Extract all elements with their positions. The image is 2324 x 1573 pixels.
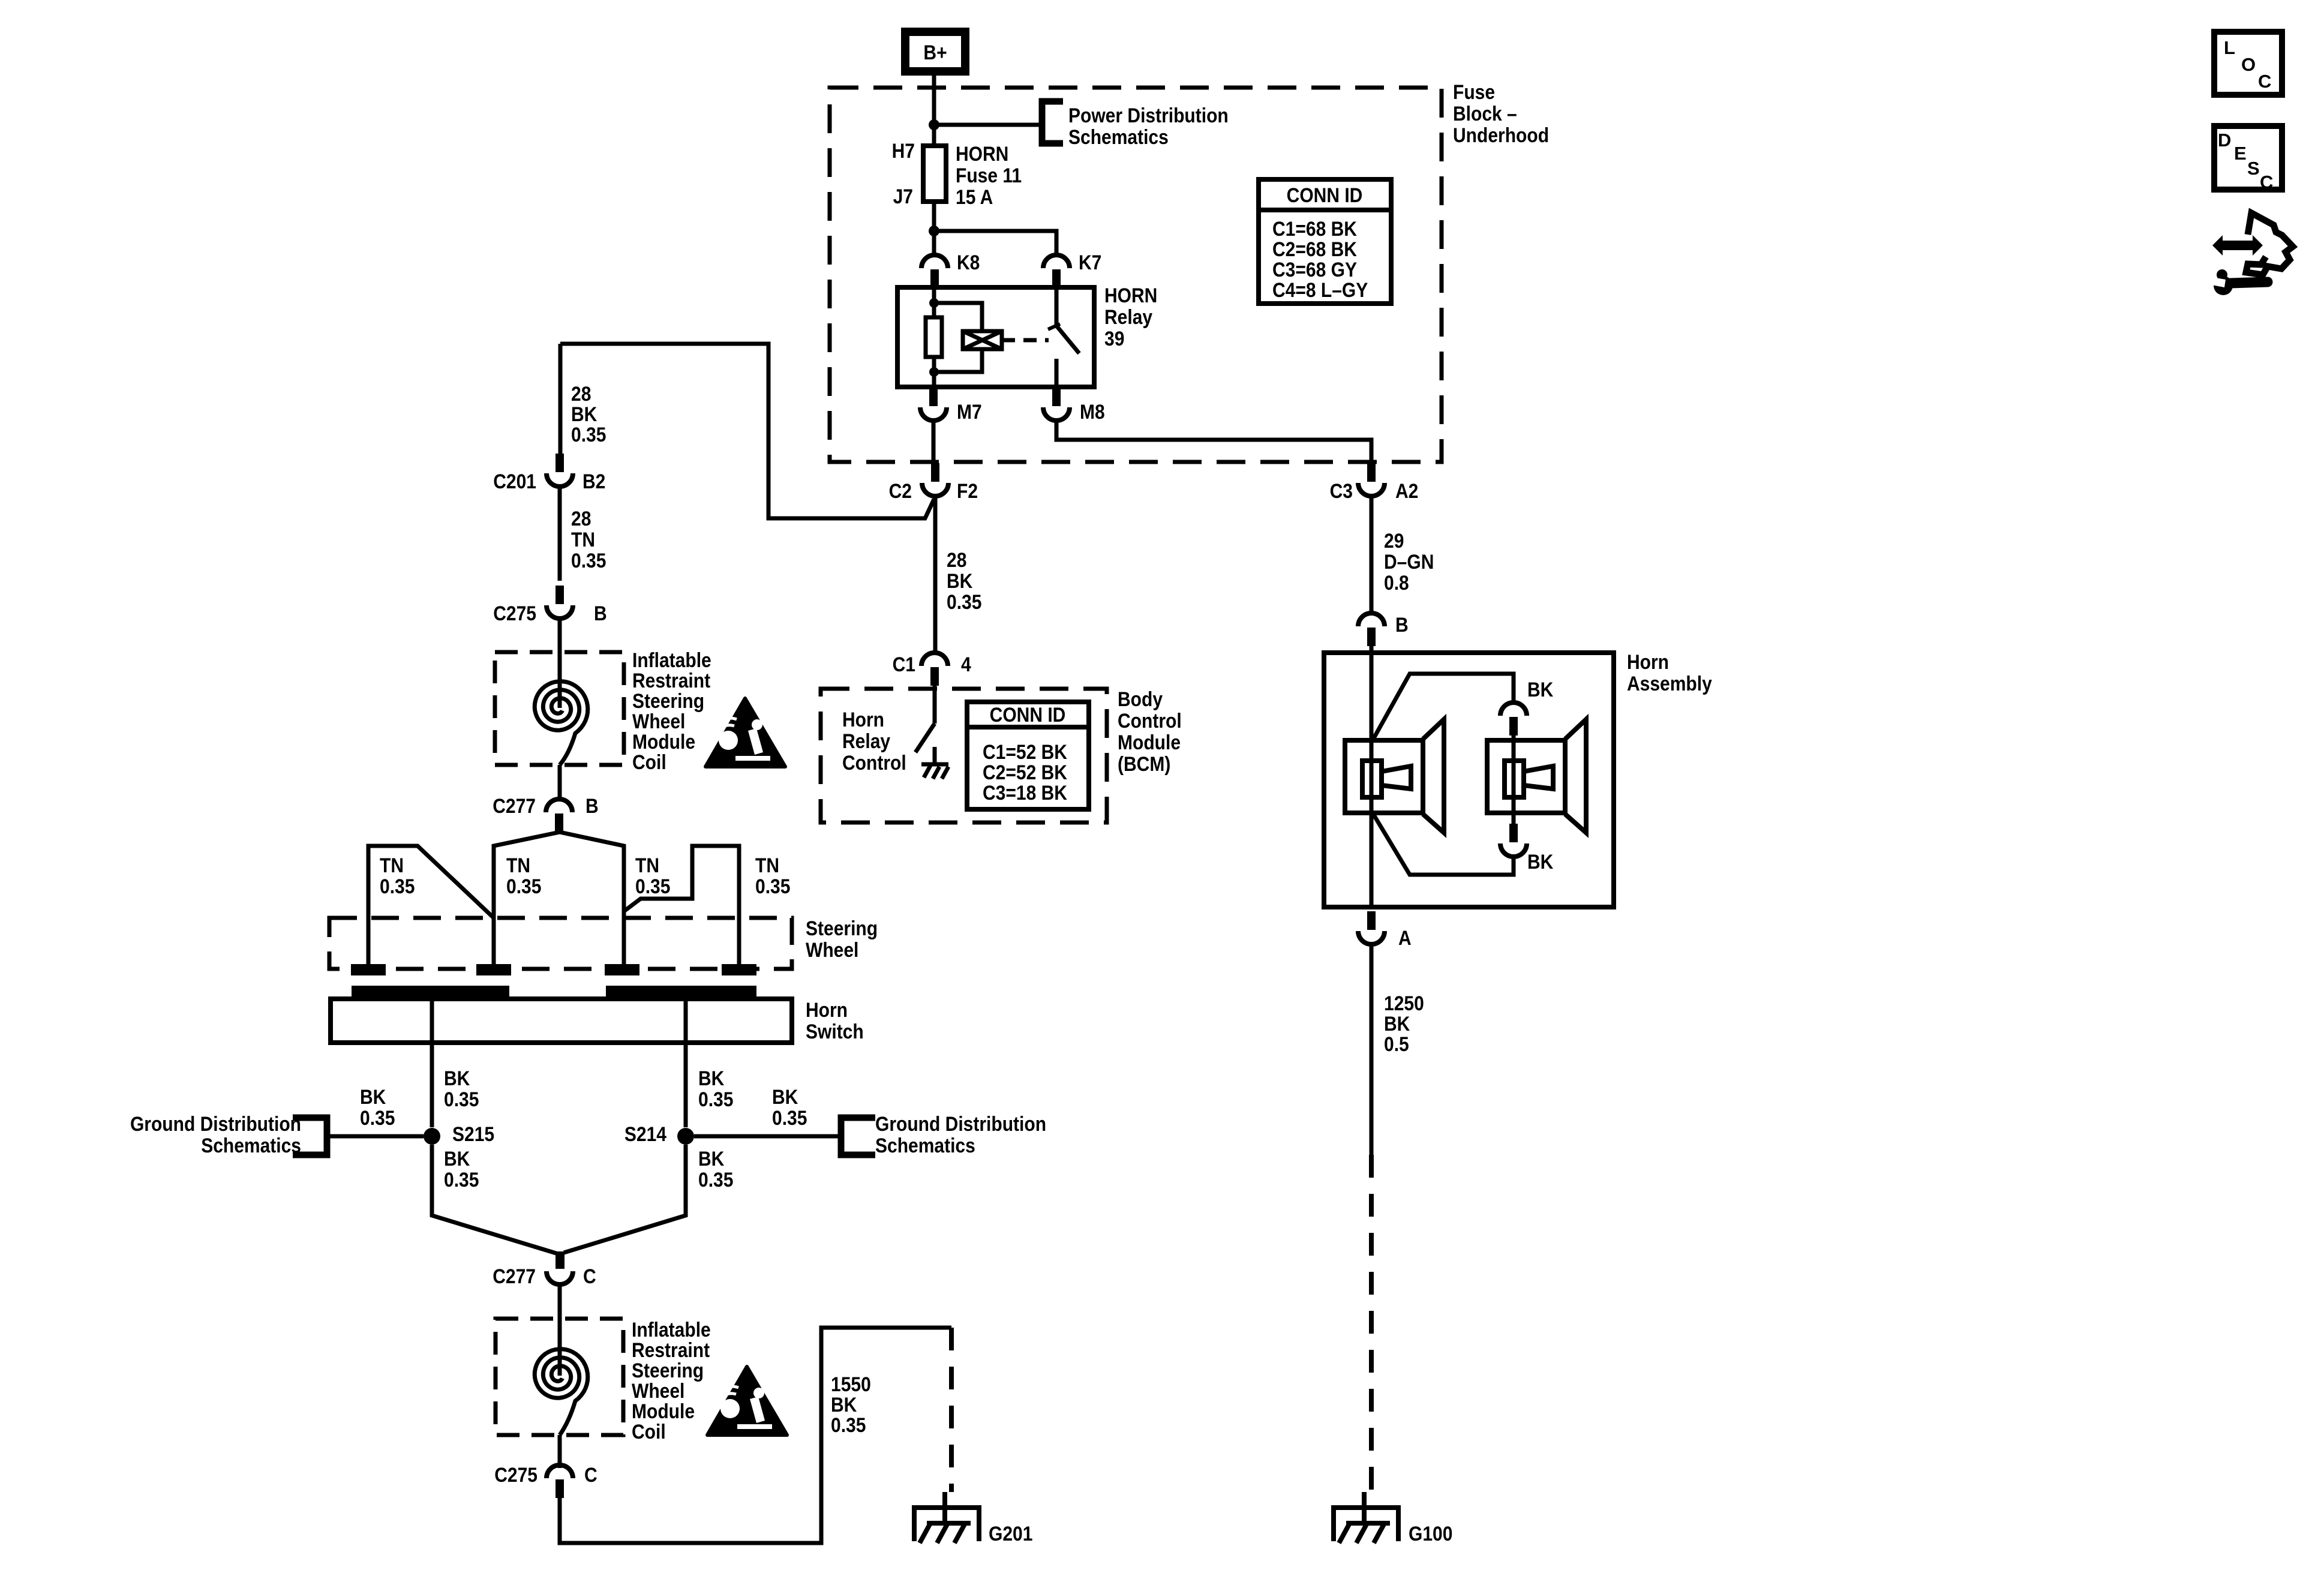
svg-text:BK: BK bbox=[444, 1147, 470, 1170]
label wire TN 0.35 #4 bbox=[755, 854, 790, 897]
ground G201 symbol bbox=[914, 1492, 979, 1543]
wire junction to fuse pin H7 bbox=[932, 125, 936, 146]
svg-text:0.35: 0.35 bbox=[380, 875, 415, 897]
off-page bracket Power Distribution bbox=[1042, 101, 1063, 143]
connector C1 pin 4 bbox=[921, 653, 948, 686]
label wire BK 0.35 above S214 bbox=[698, 1067, 733, 1110]
label wire BK 0.35 left of S215 bbox=[360, 1085, 395, 1129]
svg-text:0.35: 0.35 bbox=[831, 1413, 866, 1436]
connector pin M7 bbox=[920, 388, 947, 421]
svg-text:0.35: 0.35 bbox=[444, 1168, 479, 1191]
svg-text:Coil: Coil bbox=[632, 751, 666, 773]
connector C277 pin C stub bbox=[556, 1251, 565, 1269]
label S214 bbox=[624, 1122, 666, 1145]
svg-text:B2: B2 bbox=[582, 470, 605, 493]
wire dashed to G201 bbox=[949, 1328, 954, 1492]
pin B label C275 bbox=[594, 602, 607, 625]
label wire TN 0.35 #2 bbox=[506, 854, 541, 897]
wire coil 2 to C275-C bbox=[558, 1435, 562, 1468]
pin B label C277 bbox=[585, 794, 599, 817]
connector pin K8 bbox=[921, 255, 948, 288]
connector C1 label bbox=[893, 653, 915, 676]
wire C277-C into coil 2 bbox=[558, 1284, 562, 1376]
svg-text:K8: K8 bbox=[957, 251, 980, 274]
svg-text:C2: C2 bbox=[889, 479, 912, 502]
svg-text:Body: Body bbox=[1118, 688, 1163, 710]
svg-text:M7: M7 bbox=[957, 400, 982, 423]
svg-text:BK: BK bbox=[360, 1085, 386, 1108]
svg-text:A2: A2 bbox=[1395, 479, 1418, 502]
svg-text:28: 28 bbox=[947, 548, 966, 571]
wire junction to relay pin K7 bbox=[934, 231, 1056, 255]
svg-text:Fuse 11: Fuse 11 bbox=[956, 164, 1022, 187]
wire right horn to BK connector bottom bbox=[1512, 813, 1516, 830]
label Steering Wheel bbox=[806, 917, 878, 961]
svg-text:Steering: Steering bbox=[632, 1359, 704, 1382]
svg-text:Restraint: Restraint bbox=[632, 669, 710, 692]
steering wheel dashed box bbox=[329, 918, 792, 969]
wire junction to relay pin K8 bbox=[932, 231, 936, 255]
svg-text:1550: 1550 bbox=[831, 1373, 871, 1395]
pin A2 label bbox=[1395, 479, 1418, 502]
svg-text:S215: S215 bbox=[452, 1122, 494, 1145]
connector C277 pin C arc bbox=[547, 1271, 573, 1284]
svg-text:B: B bbox=[1395, 613, 1409, 636]
table rows conn id fuse block bbox=[1272, 217, 1368, 301]
table header CONN ID bbox=[1287, 184, 1363, 206]
svg-text:0.5: 0.5 bbox=[1384, 1032, 1409, 1055]
wire coil 1 to C277-B bbox=[558, 765, 562, 799]
svg-text:Underhood: Underhood bbox=[1453, 124, 1549, 146]
wire left horn to pin A bbox=[1370, 813, 1374, 907]
wire relay coil to bottom node bbox=[934, 349, 982, 372]
svg-text:Module: Module bbox=[632, 730, 695, 753]
wire S214 to C277-C bbox=[564, 1145, 686, 1253]
svg-text:C277: C277 bbox=[493, 794, 536, 817]
label wire TN 0.35 #1 bbox=[380, 854, 415, 897]
off-page bracket Ground Distribution right bbox=[841, 1118, 875, 1155]
table CONN ID (fuse block underhood) bbox=[1259, 179, 1391, 304]
svg-text:BK: BK bbox=[1527, 678, 1554, 701]
svg-text:Wheel: Wheel bbox=[632, 1379, 684, 1402]
label B+ bbox=[923, 41, 947, 64]
wire BK connector to right horn bbox=[1512, 736, 1516, 740]
svg-text:39: 39 bbox=[1104, 327, 1124, 350]
warning triangle 2 (airbag warning pictograph) bbox=[707, 1367, 787, 1435]
svg-text:0.35: 0.35 bbox=[444, 1088, 479, 1110]
wire to relay pin M7 bbox=[932, 372, 936, 387]
label inflatable restraint steering wheel module coil 1 bbox=[632, 649, 711, 773]
label wire BK 0.35 below S215 bbox=[444, 1147, 479, 1191]
label wire 28 BK 0.35 middle bbox=[947, 548, 981, 613]
label wire 29 D-GN 0.8 bbox=[1384, 529, 1434, 594]
svg-text:H7: H7 bbox=[892, 139, 915, 162]
label wire 28 BK 0.35 left bbox=[571, 382, 606, 446]
wire BK return to main bbox=[1373, 813, 1514, 875]
svg-text:Relay: Relay bbox=[1104, 305, 1152, 328]
svg-text:BK: BK bbox=[698, 1147, 725, 1170]
svg-text:Fuse: Fuse bbox=[1453, 80, 1495, 103]
wire horn switch output right bbox=[684, 996, 688, 1127]
svg-text:Power Distribution: Power Distribution bbox=[1068, 104, 1229, 127]
svg-text:Coil: Coil bbox=[632, 1420, 666, 1443]
wire 1250 BK 0.5 dashed to G100 bbox=[1369, 1155, 1374, 1492]
splice S214 bbox=[677, 1128, 694, 1145]
svg-text:Inflatable: Inflatable bbox=[632, 649, 711, 671]
relay HORN Relay 39 box bbox=[897, 287, 1094, 387]
svg-text:Ground Distribution: Ground Distribution bbox=[875, 1112, 1046, 1135]
svg-text:TN: TN bbox=[755, 854, 779, 876]
svg-text:C1=52 BK: C1=52 BK bbox=[983, 740, 1068, 763]
svg-text:Horn: Horn bbox=[842, 708, 884, 731]
label Ground Distribution Schematics right bbox=[875, 1112, 1046, 1157]
icon component locator (arrow head wrench) bbox=[2209, 213, 2293, 295]
svg-text:C: C bbox=[2258, 71, 2271, 92]
svg-text:Module: Module bbox=[1118, 731, 1181, 754]
connector C3 label bbox=[1330, 479, 1353, 502]
svg-text:0.35: 0.35 bbox=[571, 549, 606, 572]
svg-text:Wheel: Wheel bbox=[632, 710, 685, 733]
svg-text:Wheel: Wheel bbox=[806, 938, 858, 961]
icon LOC box bbox=[2214, 32, 2282, 95]
svg-text:0.35: 0.35 bbox=[360, 1106, 395, 1129]
svg-text:Steering: Steering bbox=[632, 689, 704, 712]
svg-text:J7: J7 bbox=[893, 185, 913, 208]
svg-text:G201: G201 bbox=[989, 1522, 1032, 1545]
pin B label bbox=[1395, 613, 1409, 636]
warning triangle 1 (airbag warning pictograph) bbox=[705, 698, 785, 767]
label Horn Relay Control bbox=[842, 708, 906, 774]
connector BK (horn 2 return) bbox=[1500, 824, 1527, 857]
node relay internal bottom bbox=[929, 367, 939, 377]
svg-text:15 A: 15 A bbox=[956, 185, 993, 208]
svg-text:TN: TN bbox=[380, 854, 404, 876]
svg-text:O: O bbox=[2241, 54, 2256, 75]
wire TN 4 crossover bbox=[624, 846, 739, 964]
svg-text:C2=52 BK: C2=52 BK bbox=[983, 761, 1068, 784]
label Fuse Block - Underhood bbox=[1453, 80, 1549, 146]
connector C275 pin C bbox=[547, 1465, 573, 1498]
wire branch to TN 3 bbox=[560, 832, 624, 964]
ground G201 label bbox=[989, 1522, 1032, 1545]
label BK top bbox=[1527, 678, 1554, 701]
svg-text:G100: G100 bbox=[1409, 1522, 1452, 1545]
horn 2 (right) symbol bbox=[1487, 719, 1586, 833]
svg-text:0.35: 0.35 bbox=[698, 1088, 733, 1110]
label wire 1550 BK 0.35 bbox=[831, 1373, 871, 1436]
svg-text:TN: TN bbox=[571, 528, 595, 551]
wire to power distribution bracket bbox=[934, 123, 1040, 127]
connector C201 pin B2 bbox=[547, 454, 573, 487]
svg-text:Horn: Horn bbox=[1627, 650, 1669, 673]
svg-text:Schematics: Schematics bbox=[1068, 125, 1169, 148]
connector C2 pin F2 bbox=[922, 463, 948, 496]
label Horn Switch bbox=[806, 998, 864, 1043]
svg-text:0.35: 0.35 bbox=[772, 1106, 807, 1129]
label S215 bbox=[452, 1122, 494, 1145]
coil 2 spiral (clockspring spiral) bbox=[535, 1349, 588, 1435]
power symbol B+ box bbox=[905, 32, 965, 71]
connector C277 pin B bbox=[546, 799, 572, 832]
wire M7 down to fuse block edge bbox=[932, 421, 936, 462]
resistor (relay internal) bbox=[926, 317, 942, 357]
svg-text:Assembly: Assembly bbox=[1627, 672, 1712, 695]
svg-text:BK: BK bbox=[1527, 850, 1554, 873]
relay coil (box-X) bbox=[963, 331, 1002, 349]
wire S214 to ground distribution bbox=[694, 1134, 841, 1139]
wire 28 TN 0.35 bbox=[558, 487, 562, 581]
svg-text:B+: B+ bbox=[923, 41, 947, 64]
fuse block underhood dashed box bbox=[830, 88, 1442, 462]
wire C1-4 into BCM switch bbox=[933, 686, 937, 724]
svg-text:Restraint: Restraint bbox=[632, 1338, 710, 1361]
label HORN Relay 39 bbox=[1104, 284, 1157, 350]
svg-text:0.35: 0.35 bbox=[755, 875, 790, 897]
label wire BK 0.35 above S215 bbox=[444, 1067, 479, 1110]
svg-text:Inflatable: Inflatable bbox=[632, 1318, 711, 1341]
svg-text:1250: 1250 bbox=[1384, 992, 1424, 1014]
svg-text:M8: M8 bbox=[1080, 400, 1105, 423]
svg-text:0.35: 0.35 bbox=[635, 875, 670, 897]
svg-text:BK: BK bbox=[1384, 1012, 1410, 1035]
svg-text:F2: F2 bbox=[957, 479, 978, 502]
svg-text:C275: C275 bbox=[493, 602, 536, 625]
svg-text:HORN: HORN bbox=[1104, 284, 1157, 307]
svg-text:Module: Module bbox=[632, 1400, 695, 1422]
node junction below fuse bbox=[929, 226, 939, 236]
component inflatable restraint coil 2 dashed box bbox=[496, 1319, 623, 1435]
svg-text:C277: C277 bbox=[493, 1265, 536, 1287]
pin M7 label bbox=[957, 400, 982, 423]
svg-text:A: A bbox=[1398, 926, 1412, 949]
component inflatable restraint coil 1 dashed box bbox=[495, 652, 624, 765]
connector pin M8 bbox=[1043, 388, 1070, 421]
wire 29 D-GN 0.8 bbox=[1370, 496, 1374, 613]
label HORN Fuse 11 15 A bbox=[956, 142, 1022, 208]
table CONN ID (BCM) bbox=[967, 702, 1089, 809]
coil 1 spiral (clockspring spiral) bbox=[535, 682, 588, 765]
svg-text:0.8: 0.8 bbox=[1384, 571, 1409, 594]
pin M8 label bbox=[1080, 400, 1105, 423]
svg-text:CONN ID: CONN ID bbox=[1287, 184, 1363, 206]
svg-text:L: L bbox=[2224, 37, 2235, 58]
svg-text:Steering: Steering bbox=[806, 917, 878, 939]
ground G100 symbol bbox=[1334, 1492, 1398, 1543]
connector pin A horn assembly bbox=[1358, 911, 1385, 944]
table header CONN ID BCM bbox=[990, 703, 1066, 726]
label BK bottom bbox=[1527, 850, 1554, 873]
connector C275 pin B bbox=[547, 586, 573, 619]
svg-text:D–GN: D–GN bbox=[1384, 550, 1434, 573]
wire B+ to junction bbox=[932, 76, 936, 125]
wire B into left horn bbox=[1370, 646, 1374, 740]
svg-text:C201: C201 bbox=[493, 470, 536, 493]
label Ground Distribution Schematics left bbox=[130, 1112, 301, 1157]
svg-text:C3=68 GY: C3=68 GY bbox=[1272, 258, 1357, 281]
wire S215 to ground distribution bbox=[329, 1134, 424, 1139]
label wire BK 0.35 below S214 bbox=[698, 1147, 733, 1191]
svg-text:C1: C1 bbox=[893, 653, 915, 676]
module Body Control Module dashed box bbox=[821, 689, 1107, 822]
pin H7 bbox=[892, 139, 915, 162]
pin K8 label bbox=[957, 251, 980, 274]
connector C275-C label bbox=[494, 1463, 538, 1486]
pin B2 label bbox=[582, 470, 605, 493]
icon DESC box bbox=[2214, 126, 2282, 190]
svg-text:TN: TN bbox=[635, 854, 659, 876]
wire 1550 BK 0.35 bbox=[560, 1328, 951, 1543]
wire resistor to bottom node bbox=[932, 357, 936, 372]
pin F2 label bbox=[957, 479, 978, 502]
svg-text:0.35: 0.35 bbox=[506, 875, 541, 897]
label Power Distribution Schematics bbox=[1068, 104, 1229, 148]
connector BK (horn 2 feed) bbox=[1500, 703, 1527, 736]
svg-text:BK: BK bbox=[444, 1067, 470, 1089]
svg-text:28: 28 bbox=[571, 382, 591, 405]
label wire 1250 BK 0.5 bbox=[1384, 992, 1424, 1055]
node junction B+ / power distribution tap bbox=[929, 119, 939, 130]
svg-text:0.35: 0.35 bbox=[698, 1168, 733, 1191]
wire relay switch common bbox=[1055, 287, 1059, 326]
svg-text:Control: Control bbox=[842, 751, 906, 774]
svg-text:B: B bbox=[585, 794, 599, 817]
svg-text:CONN ID: CONN ID bbox=[990, 703, 1066, 726]
wire TN 1 crossover bbox=[368, 846, 494, 964]
connector C275-B label bbox=[493, 602, 536, 625]
svg-text:K7: K7 bbox=[1079, 251, 1101, 274]
svg-text:0.35: 0.35 bbox=[947, 590, 981, 613]
svg-text:BK: BK bbox=[947, 569, 973, 592]
svg-text:(BCM): (BCM) bbox=[1118, 752, 1170, 775]
label Body Control Module BCM bbox=[1118, 688, 1182, 775]
svg-text:Switch: Switch bbox=[806, 1020, 864, 1043]
svg-text:C3: C3 bbox=[1330, 479, 1353, 502]
pin A label bbox=[1398, 926, 1412, 949]
wire relay switch output bbox=[1055, 359, 1059, 387]
svg-text:Ground Distribution: Ground Distribution bbox=[130, 1112, 301, 1135]
svg-text:C1=68 BK: C1=68 BK bbox=[1272, 217, 1358, 240]
svg-text:BK: BK bbox=[698, 1067, 725, 1089]
ground G100 label bbox=[1409, 1522, 1452, 1545]
label inflatable restraint steering wheel module coil 2 bbox=[632, 1318, 711, 1443]
splice S215 bbox=[424, 1128, 440, 1145]
connector C277-B label bbox=[493, 794, 536, 817]
wire left branch to C2 F2 bbox=[560, 344, 934, 518]
pin C label C275 bbox=[584, 1463, 597, 1486]
wire branch to TN 2 bbox=[494, 832, 560, 964]
wire to resistor bbox=[932, 303, 936, 317]
wire top node to relay coil bbox=[934, 303, 982, 331]
table rows conn id BCM bbox=[983, 740, 1068, 804]
label wire 28 TN 0.35 bbox=[571, 507, 606, 572]
wire through right horn bbox=[1512, 740, 1516, 813]
svg-text:E: E bbox=[2234, 143, 2247, 164]
svg-text:S: S bbox=[2247, 158, 2260, 179]
component Horn Assembly box bbox=[1324, 653, 1614, 907]
svg-text:C3=18 BK: C3=18 BK bbox=[983, 781, 1068, 804]
svg-text:C275: C275 bbox=[494, 1463, 538, 1486]
label Horn Assembly bbox=[1627, 650, 1712, 695]
horn switch contact bars bbox=[352, 986, 509, 996]
BCM internal ground bbox=[921, 747, 948, 779]
wire horn switch output left bbox=[430, 996, 434, 1127]
wire 1250 BK 0.5 solid bbox=[1370, 944, 1374, 1155]
svg-text:4: 4 bbox=[961, 653, 971, 676]
svg-text:HORN: HORN bbox=[956, 142, 1008, 165]
svg-text:C: C bbox=[2260, 172, 2273, 193]
svg-text:BK: BK bbox=[831, 1393, 857, 1416]
wire left horn to BK connector top bbox=[1373, 674, 1514, 740]
svg-text:C4=8 L–GY: C4=8 L–GY bbox=[1272, 278, 1368, 301]
wire S215 to C277-C bbox=[432, 1145, 556, 1253]
svg-text:BK: BK bbox=[571, 403, 597, 425]
connector C2 label bbox=[889, 479, 912, 502]
transistor/switch horn relay control bbox=[915, 724, 935, 752]
horn 1 (left) symbol bbox=[1345, 719, 1444, 833]
connector C3 pin A2 bbox=[1358, 463, 1385, 496]
connector pin B horn assembly bbox=[1358, 613, 1385, 646]
svg-text:Schematics: Schematics bbox=[875, 1134, 975, 1157]
svg-text:0.35: 0.35 bbox=[571, 423, 606, 446]
pin 4 label bbox=[961, 653, 971, 676]
wire relay internal top bbox=[932, 287, 936, 303]
wire through left horn bbox=[1370, 740, 1374, 813]
svg-text:Horn: Horn bbox=[806, 998, 848, 1021]
connector C277-C label bbox=[493, 1265, 536, 1287]
switch Horn Switch box bbox=[331, 999, 792, 1043]
wire 28 BK 0.35 left vertical bbox=[559, 344, 563, 454]
wire C275-B into coil 1 bbox=[558, 619, 562, 708]
connector C201 label bbox=[493, 470, 536, 493]
pin J7 bbox=[893, 185, 913, 208]
pin K7 label bbox=[1079, 251, 1101, 274]
svg-text:Schematics: Schematics bbox=[201, 1134, 301, 1157]
svg-text:28: 28 bbox=[571, 507, 591, 530]
svg-text:C2=68 BK: C2=68 BK bbox=[1272, 238, 1358, 260]
svg-text:TN: TN bbox=[506, 854, 530, 876]
svg-text:B: B bbox=[594, 602, 607, 625]
wire fuse pin J7 down bbox=[932, 202, 936, 231]
off-page bracket Ground Distribution left bbox=[293, 1118, 327, 1155]
svg-text:C: C bbox=[584, 1463, 597, 1486]
svg-text:S214: S214 bbox=[624, 1122, 666, 1145]
wire 28 BK 0.35 (F2 to C1-4) bbox=[933, 496, 938, 653]
wire M8 to C3 A2 bbox=[1056, 421, 1371, 462]
svg-text:C: C bbox=[583, 1265, 596, 1287]
wire relay coil-contact dashed link bbox=[1002, 338, 1049, 343]
svg-text:29: 29 bbox=[1384, 529, 1404, 552]
svg-text:Relay: Relay bbox=[842, 730, 890, 752]
connector pin K7 bbox=[1043, 255, 1070, 288]
svg-text:Control: Control bbox=[1118, 709, 1182, 732]
label wire BK 0.35 left of S214 bbox=[772, 1085, 807, 1129]
horn switch contact pads bbox=[351, 964, 386, 975]
pin C label C277 bbox=[583, 1265, 596, 1287]
label wire TN 0.35 #3 bbox=[635, 854, 670, 897]
node relay internal top bbox=[929, 298, 939, 308]
svg-text:BK: BK bbox=[772, 1085, 798, 1108]
svg-text:D: D bbox=[2218, 130, 2231, 151]
svg-text:Block –: Block – bbox=[1453, 102, 1517, 125]
